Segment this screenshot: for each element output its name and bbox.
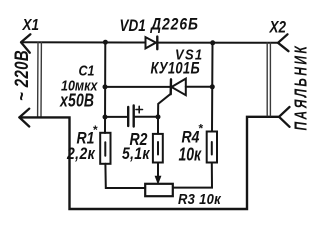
svg-text:*: * xyxy=(198,122,204,136)
svg-text:~ 220В: ~ 220В xyxy=(10,50,32,101)
resistor R1 xyxy=(100,133,110,164)
wire top (X1 pin1 to diode anode) xyxy=(21,41,145,43)
resistor R4 xyxy=(207,132,217,163)
wire R4 bottom to R3 right xyxy=(173,163,212,188)
connector X2 pin1 fork xyxy=(278,34,289,51)
svg-text:10к: 10к xyxy=(179,145,202,165)
svg-text:R3 10к: R3 10к xyxy=(178,191,222,207)
svg-text:КУ101Б: КУ101Б xyxy=(151,60,200,78)
svg-text:X2: X2 xyxy=(269,19,287,36)
wire right vertical node (top wire to R4) xyxy=(211,43,214,132)
potentiometer R3 wiper arrow xyxy=(155,176,160,183)
wire R1 bottom to R3 left xyxy=(105,164,145,188)
connector X1 pin1 arrow xyxy=(21,34,30,52)
node thyristor cathode row left xyxy=(103,84,108,89)
svg-text:*: * xyxy=(93,123,99,137)
svg-text:х50В: х50В xyxy=(59,91,94,111)
connector X2 pin2 fork xyxy=(279,107,290,127)
wire thyristor row right xyxy=(186,86,213,88)
connector X1 pin2 arrow xyxy=(19,109,29,127)
wire C1 row left xyxy=(105,116,128,118)
svg-text:Д226Б: Д226Б xyxy=(149,15,199,33)
capacitor C1 xyxy=(127,107,129,126)
svg-text:5,1к: 5,1к xyxy=(122,145,150,163)
node C1 right / gate xyxy=(156,114,161,119)
thyristor VS1 xyxy=(172,79,186,96)
connector X2 (double line) xyxy=(267,43,270,116)
resistor R2 xyxy=(157,117,159,134)
wire thyristor gate xyxy=(158,94,171,117)
node top-left junction xyxy=(103,40,108,45)
wire C1 row right xyxy=(134,116,158,118)
wire bottom loop (X1 pin2 to X2 pin2) xyxy=(19,117,279,209)
svg-text:ПАЯЛЬНИК: ПАЯЛЬНИК xyxy=(291,44,311,131)
svg-text:X1: X1 xyxy=(22,17,39,34)
potentiometer R3 xyxy=(145,184,173,196)
node C1 left xyxy=(103,115,108,120)
svg-text:VD1: VD1 xyxy=(120,17,146,36)
wire top (diode cathode to X2 pin1 fork) xyxy=(158,42,278,44)
wire left vertical node (top wire to R1) xyxy=(104,42,106,133)
wire R2 wiper xyxy=(157,163,159,178)
node dots xyxy=(103,40,216,120)
svg-text:С1: С1 xyxy=(79,63,95,79)
connector X1 (double line) xyxy=(38,42,42,117)
svg-text:2,2к: 2,2к xyxy=(66,145,96,163)
node top-right junction xyxy=(210,40,215,45)
diode VD1 xyxy=(146,37,156,48)
wire thyristor row left xyxy=(105,86,171,88)
node thyristor anode row right xyxy=(210,84,215,89)
